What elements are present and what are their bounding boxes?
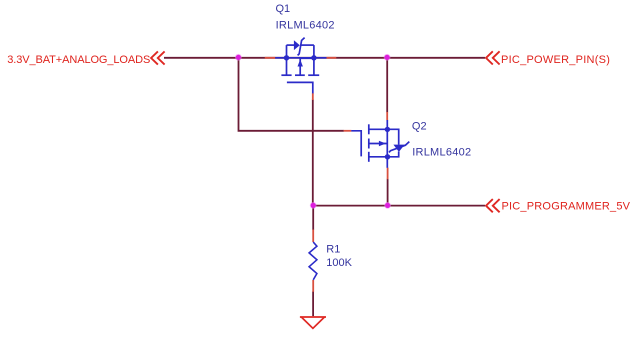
svg-text:PIC_POWER_PIN(S): PIC_POWER_PIN(S) — [501, 54, 610, 66]
svg-text:IRLML6402: IRLML6402 — [276, 20, 335, 32]
svg-text:3.3V_BAT+ANALOG_LOADS: 3.3V_BAT+ANALOG_LOADS — [7, 54, 150, 66]
svg-text:100K: 100K — [326, 257, 352, 269]
svg-text:Q1: Q1 — [276, 3, 291, 15]
svg-text:R1: R1 — [326, 243, 340, 255]
svg-text:PIC_PROGRAMMER_5V: PIC_PROGRAMMER_5V — [502, 200, 631, 212]
svg-text:IRLML6402: IRLML6402 — [412, 146, 471, 158]
svg-text:Q2: Q2 — [412, 120, 427, 132]
